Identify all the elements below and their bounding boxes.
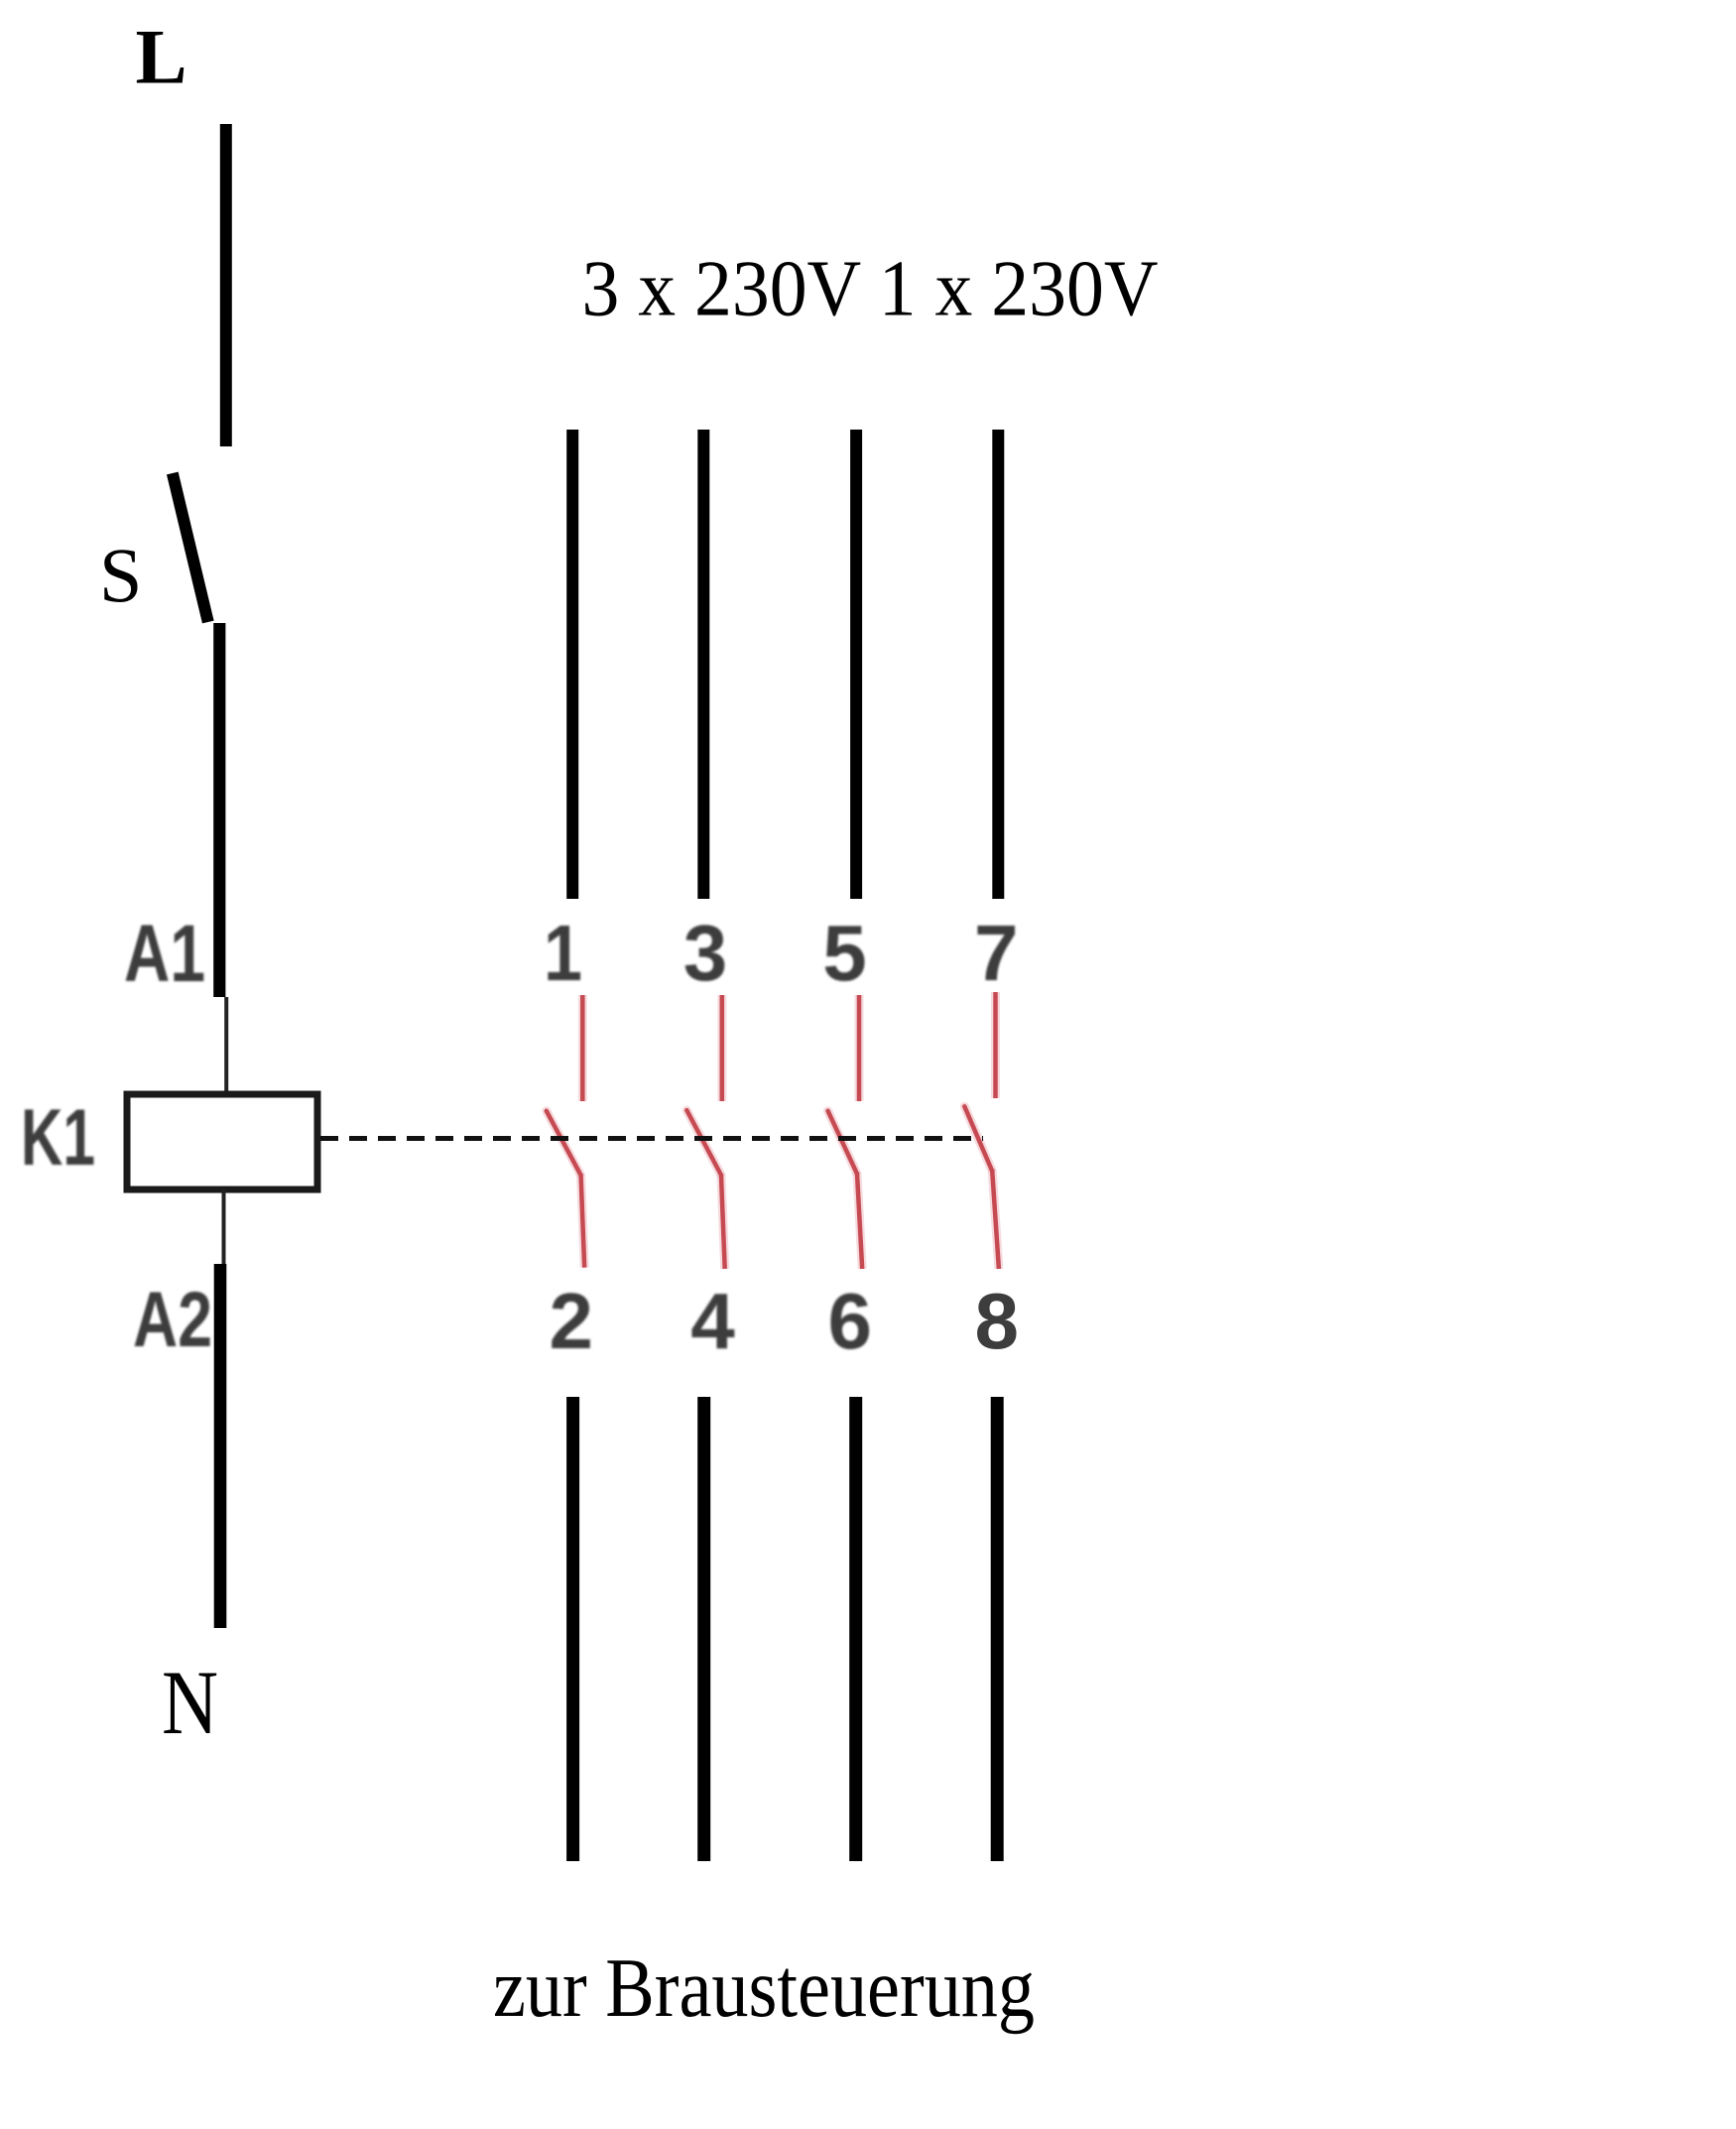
- svg-text:1: 1: [544, 909, 582, 997]
- contact K1.1 upper terminal: [580, 995, 585, 1101]
- contact K1.4 blade: [964, 1106, 991, 1169]
- svg-text:N: N: [162, 1652, 218, 1753]
- contact K1.3 upper terminal: [857, 995, 862, 1101]
- svg-text:A1: A1: [124, 909, 205, 999]
- wire A2 to N: [214, 1264, 227, 1628]
- wire phase column 4 top: [992, 430, 1004, 899]
- contact halo underlay: [547, 992, 999, 1269]
- wire load column 1 bottom: [566, 1397, 579, 1861]
- mechanical linkage dashed line: [320, 1136, 983, 1141]
- svg-text:6: 6: [827, 1277, 872, 1365]
- svg-text:S: S: [99, 532, 142, 618]
- contact K1.1 lower terminal: [581, 1174, 585, 1268]
- svg-text:7: 7: [974, 909, 1019, 997]
- wire load column 2 bottom: [697, 1397, 710, 1861]
- wire K1 to A2: [222, 1190, 226, 1264]
- wire switch to A1: [213, 623, 225, 997]
- contact K1.1 blade: [547, 1111, 580, 1174]
- wire A1 to coil K1: [224, 997, 228, 1095]
- wire load column 3 bottom: [849, 1397, 862, 1861]
- wire phase column 2 top: [697, 430, 709, 899]
- svg-text:5: 5: [822, 909, 867, 997]
- switch S blade: [173, 473, 208, 622]
- wire phase column 3 top: [850, 430, 862, 899]
- svg-text:A2: A2: [133, 1275, 212, 1363]
- svg-text:2: 2: [550, 1277, 594, 1365]
- svg-text:zur Brausteuerung: zur Brausteuerung: [493, 1941, 1035, 2035]
- wire L to switch S: [220, 124, 232, 446]
- svg-text:3 x 230V 1 x 230V: 3 x 230V 1 x 230V: [582, 245, 1159, 332]
- svg-text:L: L: [136, 13, 187, 99]
- contact K1.2 upper terminal: [720, 995, 725, 1101]
- svg-text:8: 8: [974, 1277, 1019, 1365]
- wire phase column 1 top: [566, 430, 578, 899]
- contact K1.2 blade: [686, 1110, 720, 1174]
- contact K1.3 lower terminal: [857, 1173, 862, 1270]
- contact K1.2 lower terminal: [721, 1174, 725, 1269]
- wire load column 4 bottom: [991, 1397, 1004, 1861]
- svg-text:4: 4: [690, 1277, 735, 1365]
- contact K1.3 blade: [828, 1111, 857, 1173]
- svg-text:K1: K1: [21, 1093, 95, 1183]
- contact K1.4 lower terminal: [992, 1170, 999, 1270]
- contact K1.4 upper terminal: [993, 992, 998, 1098]
- svg-text:3: 3: [683, 909, 728, 997]
- coil K1 box: [127, 1094, 317, 1190]
